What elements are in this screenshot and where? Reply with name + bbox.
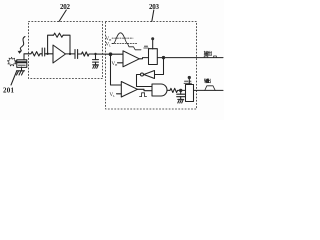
- inverter U3: [144, 71, 155, 79]
- IR radiation wavy arrow: [20, 37, 26, 53]
- leader line for label 202: [59, 10, 66, 22]
- svg-text:VL: VL: [106, 43, 112, 48]
- svg-text:输出: 输出: [204, 77, 211, 84]
- threshold waveform sketch: [112, 37, 133, 39]
- svg-text:VH: VH: [112, 62, 119, 67]
- output pulse waveform: [205, 86, 215, 91]
- heat source starburst: [7, 57, 16, 66]
- pull-up block R4: [157, 57, 223, 59]
- tiny label marks: [184, 81, 192, 83]
- AND output + resistor R5: [167, 89, 170, 91]
- sensor output wire: [24, 54, 30, 60]
- dashed box 203 (comparator block): [106, 22, 197, 110]
- svg-text:输出: 输出: [204, 50, 213, 57]
- resistor R3: [81, 52, 90, 56]
- feedback to inverter: [155, 58, 164, 75]
- pyroelectric sensor 201: [17, 60, 27, 68]
- inverter output to AND gate: [137, 75, 153, 87]
- op-amp U1: [53, 45, 66, 63]
- VL input wire: [117, 93, 122, 95]
- junction node: [162, 56, 165, 59]
- input node of block 203: [109, 52, 113, 56]
- capacitor C1: [41, 48, 43, 56]
- AND gate U5: [152, 84, 167, 96]
- feedback resistor R2 loop: [48, 35, 53, 54]
- pulse icon: [140, 93, 147, 97]
- wire: [41, 53, 42, 55]
- dashed box 202 (amplifier block): [29, 22, 103, 79]
- svg-text:202: 202: [60, 3, 71, 11]
- comparator U4: [121, 82, 137, 98]
- svg-text:VL: VL: [110, 93, 116, 98]
- VH input wire: [118, 62, 124, 64]
- output node: [69, 53, 71, 55]
- svg-text:VH: VH: [106, 37, 113, 42]
- sensor ground: [21, 67, 23, 71]
- ground: [93, 64, 99, 66]
- node: [179, 89, 182, 92]
- node with filter cap: [94, 53, 96, 55]
- node at op-amp input: [46, 53, 48, 55]
- supply line and terminal: [152, 40, 154, 49]
- comparator U2: [123, 51, 139, 67]
- capacitor C3 to ground: [95, 54, 97, 60]
- ground: [178, 98, 184, 100]
- capacitor C2: [74, 50, 76, 59]
- comparator U2 output wire: [139, 58, 148, 59]
- supply line and terminal: [188, 79, 190, 85]
- node drop to comparator U4: [111, 54, 122, 85]
- svg-text:201: 201: [3, 86, 15, 94]
- comparator U4 output: [138, 89, 153, 90]
- leader line for label 203: [152, 10, 154, 22]
- output block R6: [194, 89, 224, 91]
- resistor R1 (input): [30, 52, 41, 56]
- arrow from source to sensor: [15, 61, 17, 63]
- wire to node: [90, 53, 111, 55]
- square wave marks on top output line: [204, 56, 216, 58]
- leader line for label 201: [11, 72, 17, 86]
- capacitor C4 to ground: [180, 90, 182, 94]
- tiny label marks: [144, 46, 148, 48]
- svg-text:203: 203: [149, 3, 160, 11]
